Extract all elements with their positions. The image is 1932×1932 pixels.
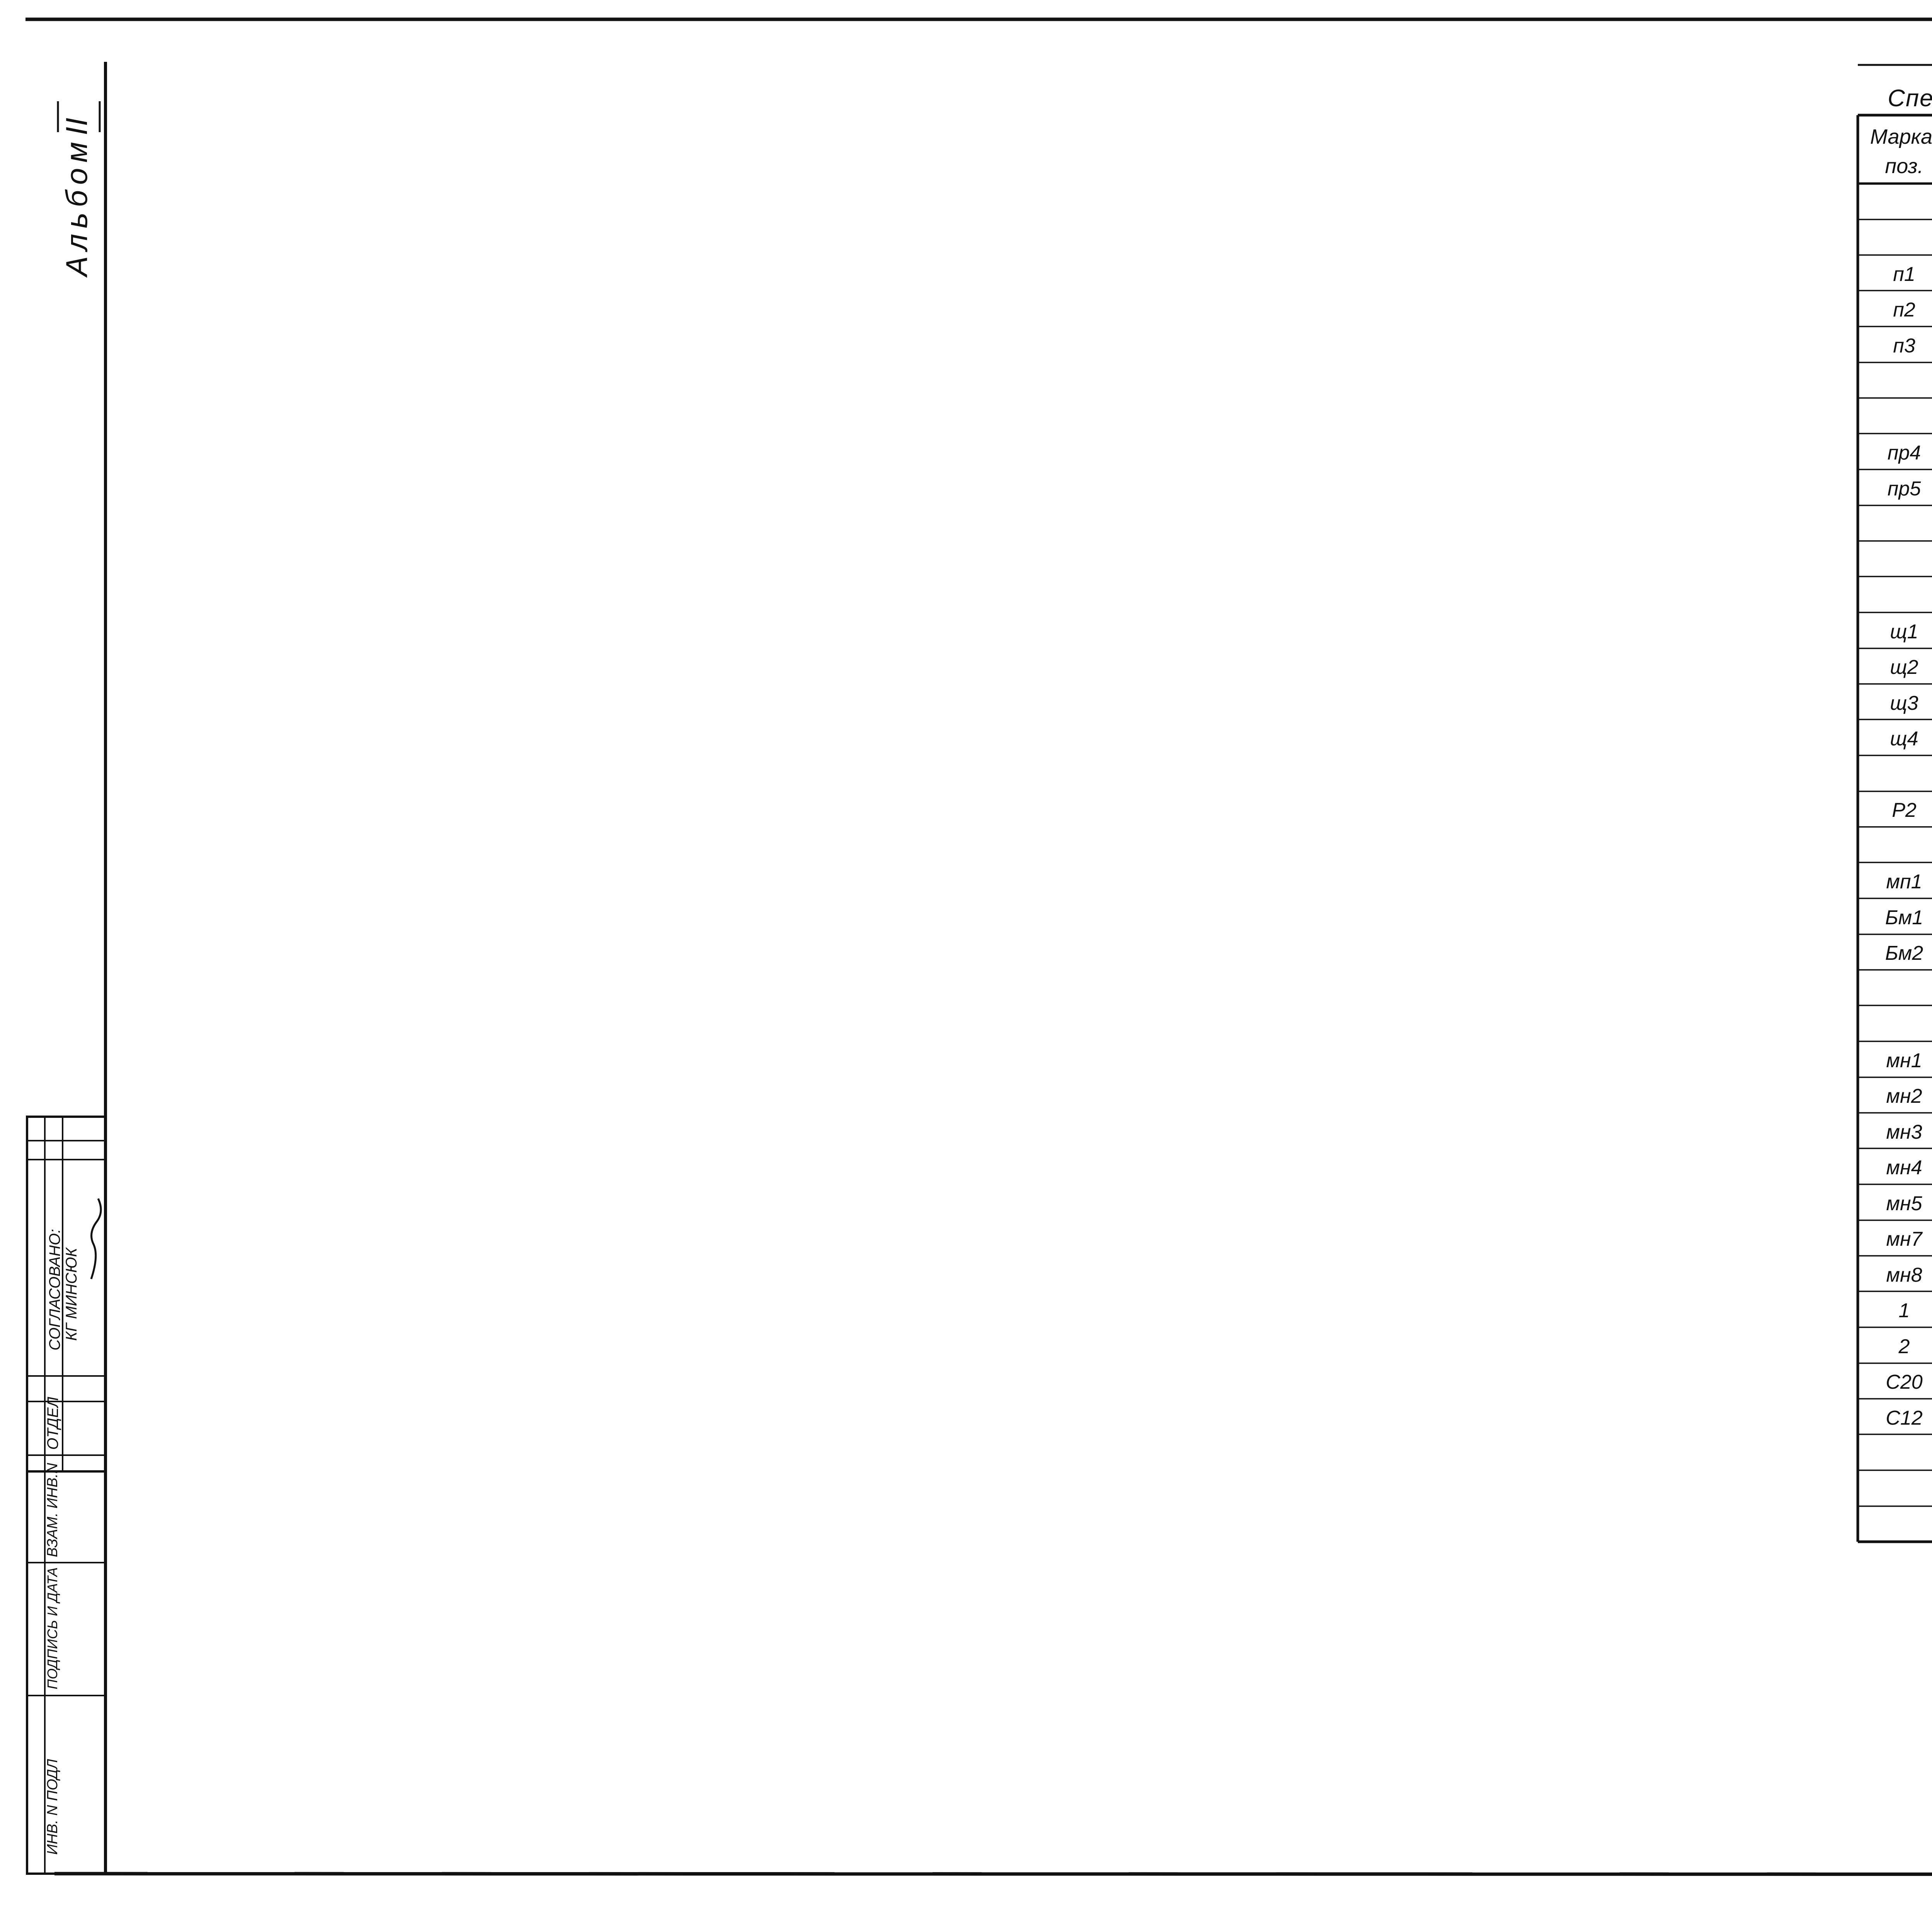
svg-text:Бм1: Бм1	[1885, 906, 1923, 929]
svg-text:мп1: мп1	[1886, 871, 1922, 893]
sheet frame bottom line	[54, 1874, 1932, 1874]
svg-text:СОГЛАСОВАНО:: СОГЛАСОВАНО:	[46, 1229, 63, 1350]
svg-text:Бм2: Бм2	[1885, 942, 1923, 964]
svg-text:мн3: мн3	[1886, 1121, 1922, 1143]
svg-text:ВЗАМ. ИНВ.N: ВЗАМ. ИНВ.N	[44, 1463, 61, 1557]
svg-text:пр5: пр5	[1888, 478, 1922, 500]
svg-text:п2: п2	[1893, 299, 1915, 321]
stamp signature	[91, 1199, 101, 1279]
svg-text:поз.: поз.	[1885, 155, 1923, 178]
svg-text:мн8: мн8	[1886, 1264, 1922, 1286]
svg-text:щ4: щ4	[1890, 728, 1918, 750]
svg-text:мн2: мн2	[1886, 1085, 1922, 1107]
svg-text:мн1: мн1	[1886, 1049, 1922, 1072]
svg-text:2: 2	[1898, 1335, 1910, 1358]
svg-text:С12: С12	[1886, 1407, 1922, 1429]
svg-text:С20: С20	[1886, 1371, 1922, 1393]
svg-text:п3: п3	[1893, 335, 1915, 357]
svg-text:1: 1	[1899, 1299, 1910, 1322]
svg-text:Марка,: Марка,	[1870, 125, 1932, 148]
svg-text:мн4: мн4	[1886, 1156, 1922, 1179]
svg-text:п1: п1	[1893, 263, 1915, 286]
svg-text:пр4: пр4	[1888, 442, 1921, 464]
svg-text:щ1: щ1	[1890, 621, 1918, 643]
sheet frame top line	[26, 18, 1932, 21]
svg-text:ПОДПИСЬ И ДАТА: ПОДПИСЬ И ДАТА	[44, 1567, 60, 1689]
spec table header	[1858, 182, 1932, 185]
left stamp block	[27, 1117, 105, 1874]
svg-text:II: II	[60, 117, 94, 135]
spec table grid	[1858, 219, 1932, 220]
svg-text:Р2: Р2	[1892, 799, 1917, 821]
sheet frame left line	[104, 62, 107, 1874]
svg-text:мн5: мн5	[1886, 1192, 1922, 1215]
svg-text:ОТДЕЛ: ОТДЕЛ	[44, 1396, 61, 1450]
svg-text:щ3: щ3	[1890, 692, 1918, 714]
svg-text:Альбом: Альбом	[60, 136, 94, 278]
svg-text:щ2: щ2	[1890, 656, 1918, 679]
svg-text:мн7: мн7	[1886, 1228, 1923, 1250]
svg-text:Спецификация к схеме Распо: Спецификация к схеме Расположения плит п…	[1888, 85, 1932, 112]
svg-text:КГ МИНСЮК: КГ МИНСЮК	[63, 1247, 80, 1341]
svg-text:ИНВ. N ПОДЛ: ИНВ. N ПОДЛ	[44, 1759, 61, 1855]
